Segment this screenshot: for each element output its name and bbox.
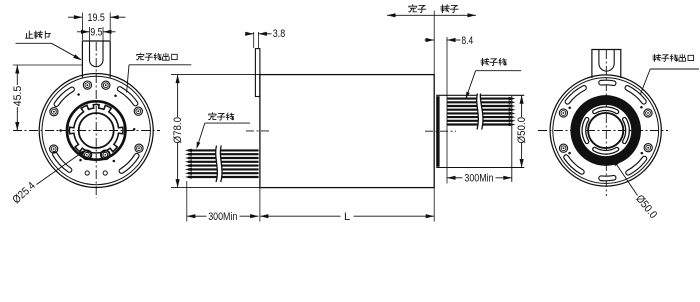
svg-text:L: L [344, 211, 350, 223]
svg-text:300Min: 300Min [464, 172, 493, 184]
svg-text:Ø50.0: Ø50.0 [516, 117, 528, 144]
svg-text:300Min: 300Min [208, 211, 237, 223]
svg-text:3.8: 3.8 [273, 28, 285, 40]
svg-text:19.5: 19.5 [88, 12, 105, 24]
svg-text:Ø78.0: Ø78.0 [172, 117, 184, 144]
svg-text:9.5: 9.5 [90, 27, 102, 39]
svg-text:8.4: 8.4 [462, 35, 474, 47]
svg-text:45.5: 45.5 [12, 86, 24, 107]
